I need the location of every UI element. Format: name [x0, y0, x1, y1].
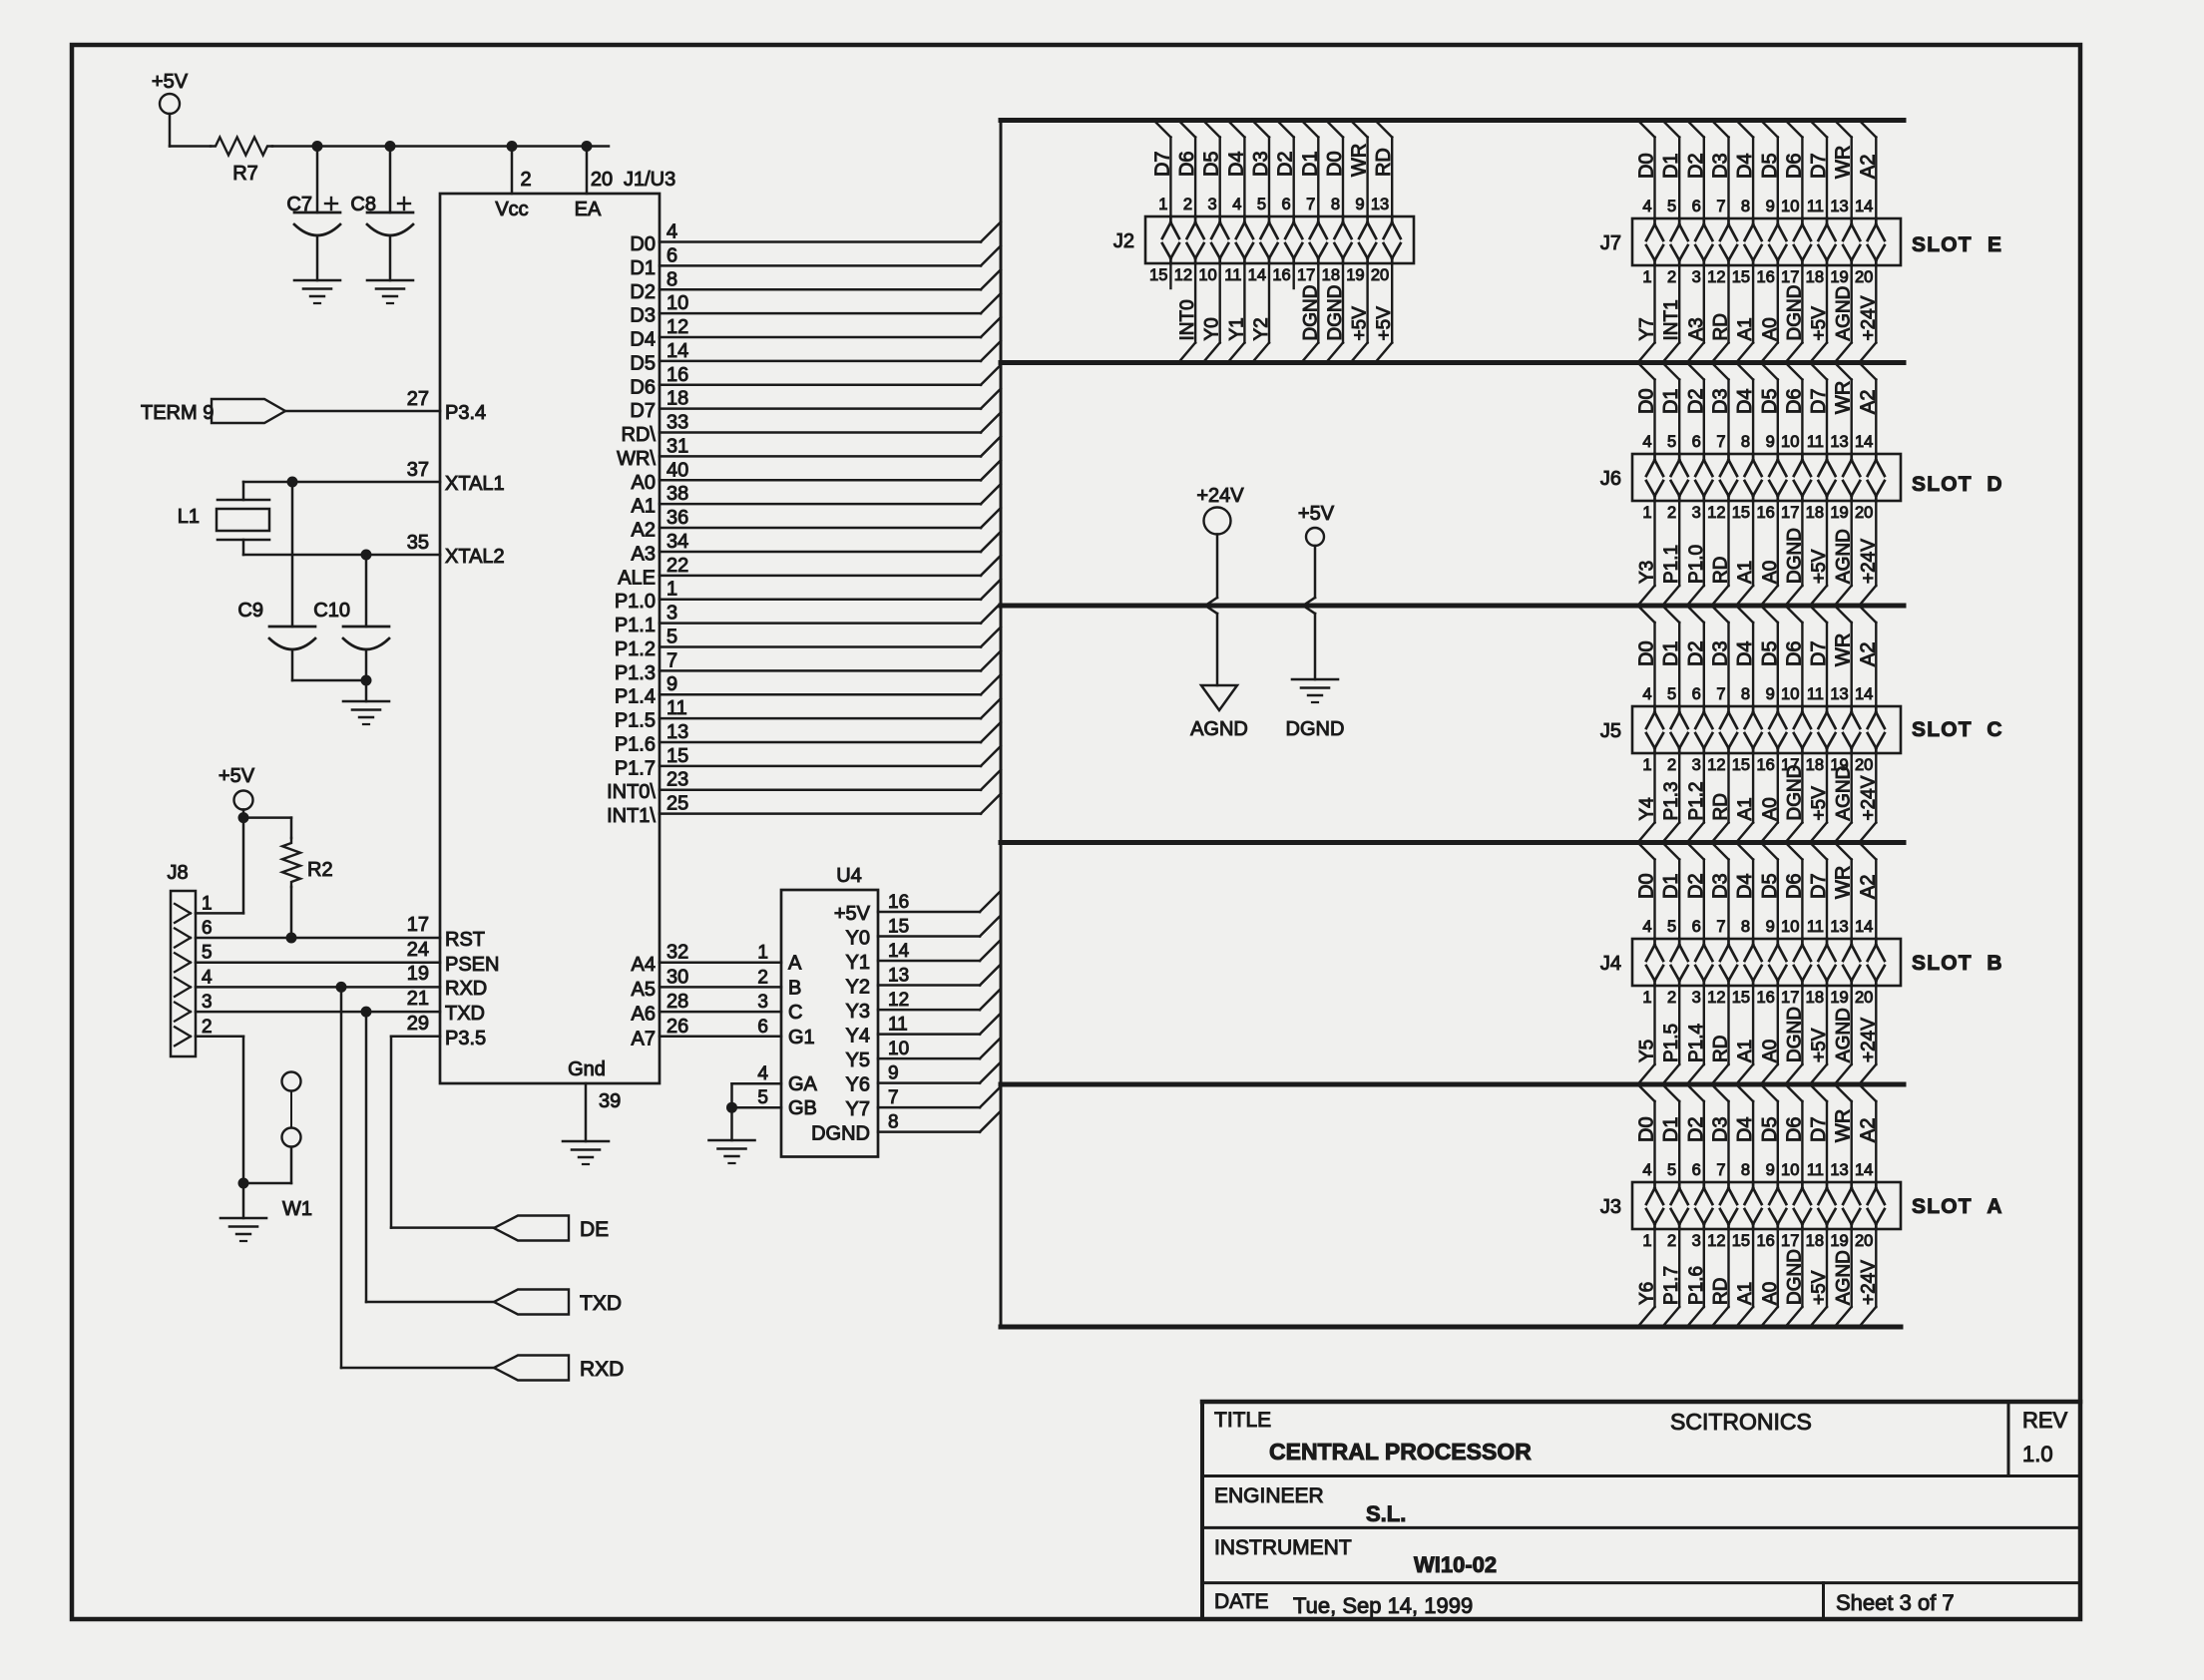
capacitor C7 — [286, 147, 340, 281]
J4 top pin 4 (D0) — [1636, 843, 1664, 987]
svg-text:R7: R7 — [232, 163, 258, 185]
svg-text:9: 9 — [1355, 196, 1364, 213]
svg-text:18: 18 — [1806, 756, 1824, 774]
svg-text:7: 7 — [666, 649, 677, 671]
power +5V (top) — [152, 71, 189, 147]
svg-text:9: 9 — [1766, 1161, 1775, 1179]
svg-text:+5V: +5V — [1350, 306, 1371, 341]
svg-text:WI10-02: WI10-02 — [1414, 1552, 1497, 1577]
svg-text:18: 18 — [1806, 504, 1824, 522]
ground (IC Gnd pin 39) — [563, 1141, 609, 1164]
J7 bottom pin 18 (+5V) — [1806, 265, 1830, 363]
svg-text:9: 9 — [1766, 198, 1775, 215]
svg-text:10: 10 — [1781, 918, 1799, 936]
J2 bottom pin 14 (Y2) — [1248, 263, 1272, 363]
svg-text:5: 5 — [1667, 918, 1676, 936]
svg-text:+5V: +5V — [1809, 786, 1830, 821]
svg-text:2: 2 — [1667, 504, 1676, 522]
svg-text:RXD: RXD — [445, 978, 487, 1000]
svg-text:P1.7: P1.7 — [615, 757, 656, 779]
svg-text:D2: D2 — [1275, 151, 1297, 177]
svg-text:RD: RD — [1373, 148, 1395, 177]
J5 top pin 14 (A2) — [1855, 606, 1885, 753]
J5 bottom pin 2 (P1.3) — [1661, 753, 1682, 843]
J4 top pin 7 (D3) — [1710, 843, 1738, 987]
svg-text:D1: D1 — [1299, 151, 1321, 177]
node TXD output flag — [494, 1290, 622, 1316]
svg-text:4: 4 — [1232, 196, 1241, 213]
svg-text:D6: D6 — [1176, 151, 1198, 177]
svg-text:8: 8 — [1741, 685, 1750, 703]
J5 bottom pin 17 (DGND) — [1781, 753, 1805, 843]
separator slot B/A — [1001, 1082, 1904, 1087]
svg-text:AGND: AGND — [1834, 1008, 1855, 1062]
svg-text:D7: D7 — [1808, 388, 1830, 414]
svg-text:11: 11 — [666, 697, 687, 719]
svg-text:12: 12 — [1707, 504, 1725, 522]
svg-text:A1: A1 — [1735, 1040, 1756, 1062]
J4 bottom pin 1 (Y5) — [1637, 986, 1658, 1084]
svg-text:5: 5 — [1257, 196, 1266, 213]
svg-text:SLOT: SLOT — [1912, 1195, 1973, 1218]
svg-text:11: 11 — [1807, 1161, 1824, 1179]
svg-text:+24V: +24V — [1858, 295, 1879, 340]
J3 top pin 11 (D7) — [1807, 1084, 1836, 1229]
svg-text:9: 9 — [1766, 918, 1775, 936]
svg-text:A1: A1 — [632, 496, 656, 518]
svg-text:4: 4 — [666, 221, 677, 243]
J5 top pin 9 (D5) — [1759, 606, 1787, 753]
svg-text:13: 13 — [1830, 685, 1848, 703]
svg-text:D4: D4 — [1734, 153, 1756, 179]
svg-text:17: 17 — [1781, 504, 1799, 522]
svg-text:16: 16 — [1756, 989, 1774, 1007]
svg-text:20: 20 — [591, 169, 613, 191]
svg-text:C9: C9 — [237, 600, 263, 622]
J7 bottom pin 1 (Y7) — [1637, 265, 1658, 363]
J3 bottom pin 20 (+24V) — [1855, 1229, 1879, 1327]
svg-text:5: 5 — [202, 943, 213, 964]
svg-text:GA: GA — [788, 1073, 818, 1095]
J2 bottom pin 16 (n.c. stub) — [1272, 263, 1293, 288]
separator slot C/B — [1001, 840, 1904, 845]
svg-text:J4: J4 — [1600, 953, 1621, 975]
J6 top pin 5 (D1) — [1660, 363, 1688, 502]
node SLOT B label — [1912, 952, 2002, 975]
svg-text:A0: A0 — [1760, 561, 1781, 584]
svg-text:WR: WR — [1833, 381, 1855, 414]
J7 top pin 8 (D4) — [1734, 121, 1762, 266]
junction node TXD branch — [361, 1007, 372, 1018]
J7 bottom pin 19 (AGND) — [1830, 265, 1854, 363]
svg-text:WR: WR — [1349, 144, 1371, 177]
node SLOT D label — [1912, 473, 2002, 496]
capacitor C10 — [313, 555, 389, 680]
ground AGND (arrow) — [1190, 685, 1248, 740]
wire D1 (IC pin 6) to bus — [630, 244, 1001, 279]
svg-text:Y4: Y4 — [846, 1026, 870, 1048]
svg-text:6: 6 — [1692, 198, 1701, 215]
wire D7 (IC pin 18) to bus — [630, 388, 1001, 423]
svg-text:2: 2 — [1667, 1232, 1676, 1250]
svg-text:19: 19 — [1830, 989, 1848, 1007]
svg-text:D2: D2 — [630, 281, 656, 303]
svg-text:7: 7 — [888, 1087, 899, 1108]
J3 top pin 8 (D4) — [1734, 1084, 1762, 1229]
wire J8 pin2 to ground — [196, 1037, 243, 1218]
connector J6 body — [1600, 454, 1901, 501]
wire PSEN — [196, 939, 499, 976]
J7 bottom pin 3 (A3) — [1686, 265, 1707, 363]
J5 top pin 4 (D0) — [1636, 606, 1664, 753]
svg-text:+5V: +5V — [219, 765, 255, 787]
J6 top pin 8 (D4) — [1734, 363, 1762, 502]
J7 top pin 5 (D1) — [1660, 121, 1688, 266]
op-amp/microcontroller IC J1/U3 body — [440, 169, 675, 1083]
svg-text:INT0: INT0 — [1177, 299, 1198, 340]
svg-text:C10: C10 — [313, 600, 350, 622]
svg-text:P3.4: P3.4 — [445, 402, 486, 424]
svg-text:AGND: AGND — [1834, 286, 1855, 341]
svg-text:11: 11 — [1224, 266, 1241, 284]
svg-text:7: 7 — [1716, 1161, 1725, 1179]
svg-text:D5: D5 — [1759, 640, 1781, 666]
svg-text:Y7: Y7 — [1637, 317, 1658, 340]
connector J3 body — [1600, 1182, 1901, 1229]
junction node C7 tap — [312, 141, 323, 152]
svg-text:INSTRUMENT: INSTRUMENT — [1214, 1536, 1352, 1559]
svg-text:D6: D6 — [1783, 1116, 1805, 1142]
J5 bottom pin 15 (A1) — [1732, 753, 1756, 843]
svg-text:D4: D4 — [1734, 873, 1756, 899]
J4 bottom pin 16 (A0) — [1756, 986, 1780, 1084]
J3 bottom pin 16 (A0) — [1756, 1229, 1780, 1327]
svg-text:5: 5 — [1667, 1161, 1676, 1179]
svg-text:WR: WR — [1833, 633, 1855, 666]
J7 top pin 10 (D6) — [1781, 121, 1811, 266]
J3 bottom pin 2 (P1.7) — [1661, 1229, 1682, 1327]
wire U4 Y3 (pin 12) to bus — [846, 990, 1000, 1023]
svg-text:D5: D5 — [1759, 873, 1781, 899]
svg-text:6: 6 — [1692, 433, 1701, 451]
svg-text:3: 3 — [1692, 756, 1701, 774]
J4 top pin 11 (D7) — [1807, 843, 1836, 987]
svg-text:5: 5 — [757, 1087, 768, 1108]
J5 top pin 7 (D3) — [1710, 606, 1738, 753]
svg-text:AGND: AGND — [1190, 718, 1248, 740]
svg-text:GB: GB — [788, 1097, 817, 1119]
node DE output flag — [494, 1216, 609, 1242]
svg-text:D4: D4 — [1734, 388, 1756, 414]
wire P1.6 (IC pin 13) to bus — [615, 721, 1001, 756]
svg-text:5: 5 — [1667, 685, 1676, 703]
svg-text:2: 2 — [202, 1017, 213, 1038]
J5 bottom pin 3 (P1.2) — [1686, 753, 1707, 843]
ground DGND — [1286, 679, 1345, 740]
svg-text:12: 12 — [666, 316, 688, 338]
J5 bottom pin 18 (+5V) — [1806, 753, 1830, 843]
svg-text:8: 8 — [1331, 196, 1340, 213]
svg-text:8: 8 — [1741, 433, 1750, 451]
svg-text:D0: D0 — [1636, 1116, 1658, 1142]
wire U4 Y4 (pin 11) to bus — [846, 1015, 1000, 1048]
svg-text:16: 16 — [1756, 756, 1774, 774]
junction node R2 tap — [238, 812, 249, 823]
J3 bottom pin 17 (DGND) — [1781, 1229, 1805, 1327]
J2 top pin 3 (D5) — [1201, 121, 1229, 264]
svg-text:SLOT: SLOT — [1912, 233, 1973, 256]
svg-text:C: C — [1986, 718, 2001, 741]
svg-text:11: 11 — [1807, 918, 1824, 936]
svg-text:SLOT: SLOT — [1912, 718, 1973, 741]
svg-text:31: 31 — [666, 435, 688, 457]
svg-text:A2: A2 — [1857, 1118, 1879, 1142]
svg-text:A7: A7 — [632, 1028, 656, 1050]
svg-text:18: 18 — [1806, 268, 1824, 286]
svg-text:10: 10 — [666, 292, 688, 314]
svg-text:5: 5 — [1667, 198, 1676, 215]
svg-text:CENTRAL PROCESSOR: CENTRAL PROCESSOR — [1269, 1439, 1532, 1465]
svg-text:12: 12 — [1707, 989, 1725, 1007]
wire P1.0 (IC pin 1) to bus — [615, 579, 1001, 614]
junction node R2/RST — [286, 933, 297, 944]
svg-text:13: 13 — [1830, 198, 1848, 215]
J4 bottom pin 15 (A1) — [1732, 986, 1756, 1084]
svg-text:+5V: +5V — [1809, 1270, 1830, 1305]
wire P3.5 to DE flag — [391, 1037, 494, 1228]
bus trunk (vertical) — [1000, 121, 1003, 1328]
J7 bottom pin 16 (A0) — [1756, 265, 1780, 363]
J3 top pin 5 (D1) — [1660, 1084, 1688, 1229]
svg-text:P1.2: P1.2 — [615, 638, 656, 660]
svg-text:6: 6 — [1282, 196, 1291, 213]
svg-text:3: 3 — [1208, 196, 1217, 213]
svg-text:18: 18 — [666, 388, 688, 410]
svg-text:Y2: Y2 — [846, 977, 870, 999]
svg-text:1: 1 — [1642, 1232, 1651, 1250]
svg-text:7: 7 — [1716, 433, 1725, 451]
svg-text:+5V: +5V — [1298, 503, 1335, 525]
wire A1 (IC pin 38) to bus — [632, 483, 1001, 518]
svg-text:A: A — [788, 953, 802, 975]
J6 bottom pin 19 (AGND) — [1830, 501, 1854, 606]
J7 bottom pin 12 (RD) — [1707, 265, 1731, 363]
svg-text:A3: A3 — [632, 543, 656, 565]
svg-text:D3: D3 — [630, 305, 656, 327]
svg-text:3: 3 — [1692, 268, 1701, 286]
junction node XTAL2/C10 — [361, 550, 372, 561]
J4 bottom pin 20 (+24V) — [1855, 986, 1879, 1084]
svg-text:D7: D7 — [1808, 640, 1830, 666]
wire P1.3 (IC pin 7) to bus — [615, 649, 1001, 684]
svg-text:J1/U3: J1/U3 — [624, 169, 675, 191]
svg-text:WR: WR — [1833, 1109, 1855, 1142]
svg-text:Tue, Sep 14, 1999: Tue, Sep 14, 1999 — [1293, 1593, 1473, 1618]
svg-text:C: C — [788, 1002, 802, 1024]
svg-text:21: 21 — [407, 988, 429, 1010]
svg-text:DGND: DGND — [1300, 285, 1321, 341]
svg-text:8: 8 — [1741, 198, 1750, 215]
connector J2 body — [1113, 216, 1414, 263]
svg-text:RXD: RXD — [580, 1358, 624, 1381]
J4 bottom pin 2 (P1.5) — [1661, 986, 1682, 1084]
svg-text:11: 11 — [1807, 198, 1824, 215]
svg-text:D3: D3 — [1710, 1116, 1732, 1142]
J7 bottom pin 15 (A1) — [1732, 265, 1756, 363]
svg-text:A2: A2 — [1857, 875, 1879, 899]
svg-text:P1.3: P1.3 — [1661, 781, 1682, 820]
svg-text:6: 6 — [202, 918, 213, 939]
svg-text:30: 30 — [666, 966, 688, 988]
svg-text:D1: D1 — [1660, 153, 1682, 179]
svg-text:20: 20 — [1855, 1232, 1873, 1250]
node TERM 9 input flag — [141, 399, 285, 424]
svg-text:14: 14 — [888, 941, 910, 962]
svg-text:+5V: +5V — [1809, 549, 1830, 584]
node SLOT A label — [1912, 1195, 2002, 1218]
svg-text:D5: D5 — [1759, 388, 1781, 414]
wire U4 Y0 (pin 15) to bus — [846, 917, 1000, 950]
J8 pin 1 — [175, 893, 213, 923]
svg-text:D0: D0 — [630, 233, 656, 255]
svg-text:15: 15 — [888, 917, 909, 938]
svg-text:Y2: Y2 — [1251, 317, 1272, 340]
svg-text:D5: D5 — [1759, 1116, 1781, 1142]
svg-text:39: 39 — [599, 1090, 621, 1112]
svg-text:8: 8 — [888, 1112, 899, 1133]
svg-text:D1: D1 — [1660, 640, 1682, 666]
svg-text:12: 12 — [1707, 1232, 1725, 1250]
svg-text:RD: RD — [1711, 1036, 1732, 1062]
svg-text:D1: D1 — [630, 257, 656, 279]
svg-text:18: 18 — [1322, 266, 1340, 284]
svg-text:D7: D7 — [630, 400, 656, 422]
svg-text:R2: R2 — [307, 859, 333, 881]
svg-text:9: 9 — [1766, 433, 1775, 451]
node SLOT E label — [1912, 233, 2001, 256]
svg-text:5: 5 — [1667, 433, 1676, 451]
svg-text:6: 6 — [757, 1017, 768, 1038]
svg-text:+5V: +5V — [1809, 306, 1830, 341]
svg-text:D3: D3 — [1250, 151, 1272, 177]
J8 pin 6 — [175, 918, 213, 948]
svg-text:AGND: AGND — [1834, 529, 1855, 584]
wire TERM9 to P3.4 — [285, 388, 486, 424]
svg-text:17: 17 — [407, 914, 429, 936]
J2 bottom pin 11 (Y1) — [1224, 263, 1247, 363]
J6 bottom pin 12 (RD) — [1707, 501, 1731, 606]
svg-text:20: 20 — [1855, 756, 1873, 774]
svg-text:24: 24 — [407, 939, 429, 961]
J5 bottom pin 12 (RD) — [1707, 753, 1731, 843]
wire P3.5 — [391, 1013, 486, 1050]
svg-text:D3: D3 — [1710, 873, 1732, 899]
J6 top pin 7 (D3) — [1710, 363, 1738, 502]
J3 top pin 4 (D0) — [1636, 1084, 1664, 1229]
wire INT1\ (IC pin 25) to bus — [607, 793, 1001, 828]
svg-text:17: 17 — [1297, 266, 1315, 284]
wire RXD to flag — [341, 987, 494, 1368]
J7 top pin 9 (D5) — [1759, 121, 1787, 266]
svg-text:D7: D7 — [1808, 1116, 1830, 1142]
svg-text:A0: A0 — [632, 472, 656, 494]
wire D5 (IC pin 14) to bus — [630, 340, 1001, 375]
J6 top pin 14 (A2) — [1855, 363, 1885, 502]
J2 bottom pin 19 (+5V) — [1346, 263, 1370, 363]
svg-text:3: 3 — [1692, 1232, 1701, 1250]
svg-text:A0: A0 — [1760, 1282, 1781, 1305]
J3 top pin 9 (D5) — [1759, 1084, 1787, 1229]
wire U4 Y5 (pin 10) to bus — [846, 1039, 1000, 1071]
J2 top pin 1 (D7) — [1151, 121, 1179, 264]
svg-text:P1.1: P1.1 — [1661, 545, 1682, 584]
power +5V (slot D) — [1298, 503, 1335, 679]
J5 top pin 8 (D4) — [1734, 606, 1762, 753]
svg-text:A0: A0 — [1760, 797, 1781, 820]
J5 bottom pin 20 (+24V) — [1855, 753, 1879, 843]
svg-text:C7: C7 — [286, 194, 312, 215]
J4 top pin 8 (D4) — [1734, 843, 1762, 987]
svg-text:A1: A1 — [1735, 317, 1756, 340]
J5 top pin 10 (D6) — [1781, 606, 1811, 753]
capacitor C9 — [237, 482, 366, 680]
svg-text:P1.2: P1.2 — [1686, 781, 1707, 820]
J5 bottom pin 1 (Y4) — [1637, 753, 1658, 843]
wire U4 GB enable — [732, 1087, 817, 1119]
svg-text:DGND: DGND — [1784, 285, 1805, 341]
svg-text:D2: D2 — [1685, 388, 1707, 414]
svg-text:A2: A2 — [632, 520, 656, 542]
svg-text:P1.5: P1.5 — [615, 710, 656, 732]
svg-text:25: 25 — [666, 793, 688, 815]
svg-text:12: 12 — [1707, 268, 1725, 286]
jumper W1 — [243, 1072, 312, 1221]
resistor R7 — [170, 138, 272, 186]
J4 bottom pin 12 (RD) — [1707, 986, 1731, 1084]
wire A5 (IC pin 30) to U4 pin 2 (B) — [632, 966, 802, 1001]
svg-text:D4: D4 — [1734, 640, 1756, 666]
svg-text:15: 15 — [666, 745, 688, 767]
svg-text:1: 1 — [757, 943, 768, 964]
svg-text:WR: WR — [1833, 866, 1855, 899]
svg-text:2: 2 — [757, 967, 768, 988]
svg-text:D0: D0 — [1636, 873, 1658, 899]
wire D2 (IC pin 8) to bus — [630, 268, 1001, 303]
svg-text:INT0\: INT0\ — [607, 781, 656, 803]
wire P1.2 (IC pin 5) to bus — [615, 626, 1001, 660]
svg-text:B: B — [1986, 952, 2001, 975]
J3 bottom pin 19 (AGND) — [1830, 1229, 1854, 1327]
J6 top pin 9 (D5) — [1759, 363, 1787, 502]
svg-text:6: 6 — [1692, 685, 1701, 703]
junction node RXD branch — [336, 982, 347, 993]
J2 top pin 7 (D1) — [1299, 121, 1327, 264]
svg-text:4: 4 — [757, 1063, 768, 1084]
svg-text:20: 20 — [1855, 268, 1873, 286]
J5 bottom pin 16 (A0) — [1756, 753, 1780, 843]
svg-text:9: 9 — [666, 673, 677, 695]
svg-text:DGND: DGND — [1784, 528, 1805, 584]
svg-text:RD: RD — [1711, 1278, 1732, 1305]
svg-text:L1: L1 — [178, 506, 200, 528]
J8 pin 3 — [175, 992, 213, 1022]
svg-text:TERM 9: TERM 9 — [141, 402, 214, 424]
svg-text:1: 1 — [1642, 989, 1651, 1007]
J5 top pin 6 (D2) — [1685, 606, 1713, 753]
svg-text:D3: D3 — [1710, 640, 1732, 666]
svg-text:WR\: WR\ — [617, 448, 656, 470]
svg-text:36: 36 — [666, 507, 688, 529]
